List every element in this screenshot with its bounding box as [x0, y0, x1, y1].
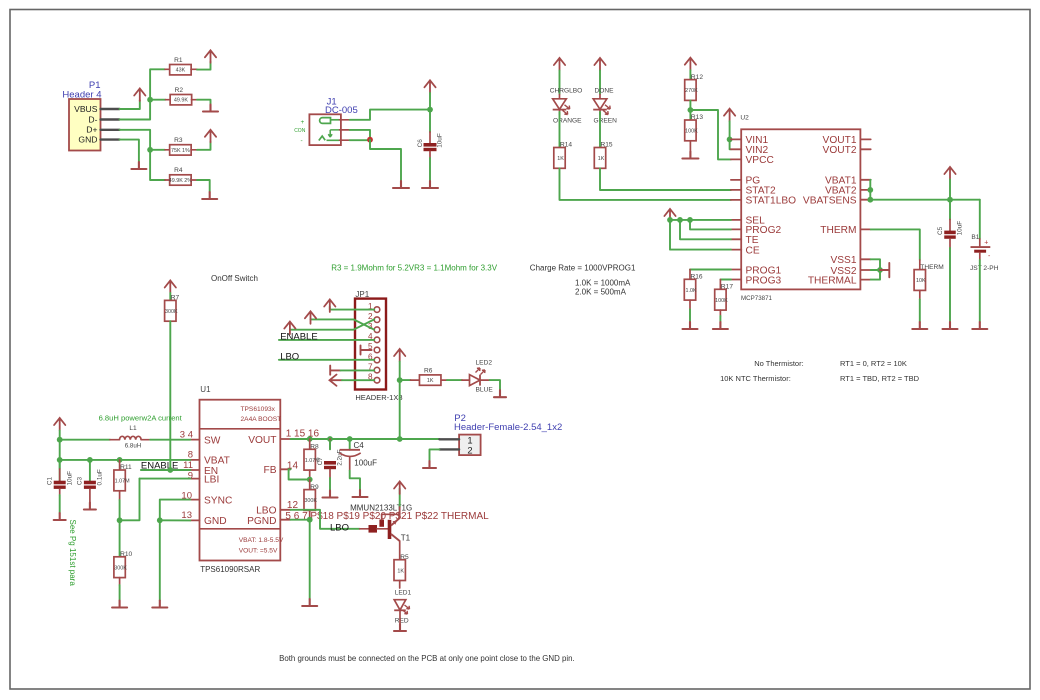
- resistor R4 lead right: [191, 179, 197, 181]
- power arrow R1: [205, 50, 216, 63]
- resistor R8 lead top: [309, 439, 311, 449]
- inductor L1: [120, 436, 142, 439]
- junction VIN rail: [427, 107, 433, 113]
- resistor R9 lead top: [309, 480, 311, 490]
- svg-text:D-: D-: [88, 114, 97, 124]
- wire PROG3: [720, 279, 731, 281]
- wire R12 to R13: [689, 100, 691, 120]
- ground J1: [393, 181, 409, 188]
- svg-text:HEADER-1X8: HEADER-1X8: [355, 393, 402, 402]
- ground R17: [713, 322, 728, 329]
- resistor R8: [304, 444, 320, 471]
- svg-text:1K: 1K: [427, 378, 434, 384]
- wire R16 to ground: [689, 309, 691, 322]
- P2 pin 2 stub: [439, 448, 459, 450]
- ground PGND: [302, 599, 317, 606]
- wire J1 middle pin to junction: [350, 130, 370, 140]
- capacitor C5 lead bottom: [949, 239, 951, 248]
- transistor T1 base resistor lead: [360, 528, 369, 530]
- U1 pin stub SYNC: [190, 499, 199, 501]
- svg-text:LBO: LBO: [280, 351, 299, 362]
- transistor T1 base resistor: [369, 525, 378, 533]
- power arrow JP1 pin2: [305, 311, 316, 324]
- svg-text:U2: U2: [740, 114, 749, 121]
- U2 pin stub VOUT2: [860, 148, 870, 150]
- wire C7 top: [329, 441, 331, 449]
- svg-text:JST 2-PH: JST 2-PH: [970, 265, 999, 272]
- wire to JP1 pin7: [341, 369, 375, 371]
- svg-text:270K: 270K: [685, 88, 698, 94]
- connector JP1 HEADER-1X8 body: [355, 299, 386, 390]
- svg-text:R1: R1: [174, 57, 183, 64]
- svg-text:C4: C4: [354, 441, 365, 450]
- svg-text:10uF: 10uF: [66, 471, 73, 486]
- wire arrow to junction: [399, 362, 401, 381]
- resistor R7: [165, 295, 180, 322]
- IC U2 MCP73871 body: [741, 129, 860, 289]
- U2 pin stub PG: [731, 179, 741, 181]
- resistor R2 lead left: [166, 99, 171, 101]
- wire arrow to LED DONE: [599, 71, 601, 95]
- svg-text:300K: 300K: [304, 498, 317, 504]
- wire CE: [670, 220, 731, 250]
- transistor T1 emitter lead: [399, 507, 401, 518]
- junction SEL b: [677, 217, 683, 223]
- wire LBO net from U1: [291, 510, 360, 529]
- junction GND/SYNC: [157, 517, 163, 523]
- resistor R8 lead bottom: [309, 470, 311, 479]
- svg-text:B1: B1: [971, 234, 979, 241]
- junction 5V LED2: [397, 377, 403, 383]
- ground LED2: [494, 390, 506, 397]
- wire LED to R14: [559, 112, 561, 148]
- wire rail to C5: [949, 200, 951, 220]
- power arrow VBAT rail: [944, 167, 955, 180]
- power arrow R7: [165, 281, 176, 294]
- svg-text:1.0K = 1000mA: 1.0K = 1000mA: [575, 279, 631, 288]
- U2 pin stub PROG1: [731, 269, 741, 271]
- ground LED1: [394, 624, 406, 631]
- wire C6 to ground: [429, 158, 431, 181]
- connector P2 body: [459, 435, 481, 456]
- svg-text:100K: 100K: [685, 129, 698, 135]
- svg-text:TPS61093x: TPS61093x: [241, 406, 276, 413]
- resistor THERM 10K: [914, 264, 944, 291]
- junction J1 minus (red): [367, 137, 373, 143]
- svg-text:No Thermistor:: No Thermistor:: [754, 359, 803, 368]
- wire VBAT2 to VBATSENS: [869, 190, 871, 200]
- junction VBAT column: [57, 457, 63, 463]
- wire arrow to rail: [949, 180, 951, 200]
- U1 pin stub SW: [190, 439, 199, 441]
- svg-text:49.9K 2%: 49.9K 2%: [169, 178, 193, 184]
- svg-text:R4: R4: [174, 167, 183, 174]
- capacitor C1 lead top: [59, 469, 61, 481]
- ground C6: [422, 181, 438, 188]
- wire R15 to STAT2: [600, 168, 731, 190]
- transistor T1 bias to emitter: [382, 513, 400, 515]
- junction LBI divider: [117, 517, 123, 523]
- JP1 pin 5 circle: [374, 347, 380, 353]
- resistor R11 lead top: [119, 460, 121, 470]
- P1 pin 4 stub GND: [101, 138, 120, 140]
- svg-text:STAT1LBO: STAT1LBO: [746, 196, 797, 207]
- svg-text:R12: R12: [691, 74, 703, 81]
- capacitor C4 electrolytic: [340, 450, 361, 457]
- wire SW row to L1: [60, 439, 110, 441]
- resistor R11 lead bottom: [119, 491, 121, 500]
- junction VBAT C3: [87, 457, 93, 463]
- junction VOUT column: [397, 436, 403, 442]
- U1 pin stub PGND: [280, 519, 290, 521]
- svg-text:0.1uF: 0.1uF: [97, 469, 104, 485]
- svg-text:R10: R10: [120, 551, 132, 558]
- arrow JP1 pin8: [330, 375, 343, 386]
- svg-text:L1: L1: [129, 425, 137, 432]
- ground R10: [112, 601, 127, 608]
- transistor T1 base lead: [377, 528, 388, 530]
- LED DONE (green): [593, 94, 617, 125]
- power arrow JP1 pin3: [284, 322, 295, 335]
- svg-text:T1: T1: [401, 533, 411, 542]
- wire PGND to ground: [309, 520, 311, 599]
- wire VBAT column: [59, 431, 61, 481]
- junction SEL c: [687, 217, 693, 223]
- U2 pin stub VSS1: [860, 258, 870, 260]
- U2 pin stub VPCC: [731, 158, 741, 160]
- power arrow R3: [205, 130, 216, 143]
- junction SW column: [57, 437, 63, 443]
- wire PROG2: [690, 220, 731, 230]
- svg-text:R11: R11: [120, 464, 132, 471]
- wire VBUS to power arrow: [120, 100, 140, 109]
- svg-text:10uF: 10uF: [957, 221, 964, 236]
- ground P1: [131, 162, 146, 169]
- wire VSS2: [871, 269, 880, 271]
- resistor R14: [554, 142, 573, 169]
- svg-text:75K 1%: 75K 1%: [171, 148, 190, 154]
- svg-text:R3: R3: [174, 137, 183, 144]
- svg-text:CON: CON: [294, 128, 306, 134]
- junction FB divider: [307, 477, 313, 483]
- wire rail to C6: [429, 110, 431, 132]
- IC U1 TPS61090 body: [200, 400, 284, 561]
- wire VOUT rail: [291, 438, 440, 440]
- svg-text:PROG3: PROG3: [746, 275, 782, 286]
- svg-text:PGND: PGND: [247, 516, 276, 527]
- wire J1 plus to rail: [350, 110, 430, 120]
- svg-text:1 15 16: 1 15 16: [286, 429, 320, 440]
- svg-text:ORANGE: ORANGE: [553, 117, 582, 124]
- wire LED to R15: [599, 112, 601, 148]
- ground C7: [323, 491, 338, 498]
- junction VOUT C7: [327, 436, 333, 442]
- LED2 lead left: [462, 379, 470, 381]
- J1 pin 2 stub: [340, 129, 350, 131]
- svg-text:Both grounds must be connected: Both grounds must be connected on the PC…: [279, 654, 575, 663]
- resistor R10 lead bottom: [119, 578, 121, 585]
- capacitor C1 lead bottom: [59, 489, 61, 495]
- svg-text:100uF: 100uF: [354, 459, 377, 468]
- inductor L1 lead right: [141, 439, 150, 441]
- U1 pin stub LBO: [280, 509, 290, 511]
- junction PGND: [307, 517, 313, 523]
- power arrow VBUS: [134, 89, 145, 102]
- wire C1 to ground: [59, 495, 61, 513]
- svg-text:MMUN2133LT1G: MMUN2133LT1G: [350, 503, 412, 512]
- svg-text:R9: R9: [310, 484, 319, 491]
- wire D+ to divider R3/R4: [120, 130, 166, 180]
- U1 pin stub GND: [190, 519, 199, 521]
- LED1 lead bottom: [399, 610, 401, 624]
- svg-text:Charge Rate = 1000VPROG1: Charge Rate = 1000VPROG1: [530, 263, 636, 272]
- wire EN row: [141, 469, 190, 471]
- resistor R15: [594, 142, 613, 169]
- resistor R6 lead left: [411, 379, 420, 381]
- U2 pin stub VBATSENS: [860, 199, 870, 201]
- svg-text:Header-Female-2.54_1x2: Header-Female-2.54_1x2: [454, 422, 562, 433]
- wire junction to R2: [150, 99, 165, 101]
- wire R4 to ground: [197, 180, 210, 192]
- wire divider to VPCC: [690, 110, 731, 159]
- svg-text:C3: C3: [77, 476, 84, 485]
- svg-text:2.2uF: 2.2uF: [337, 449, 344, 465]
- svg-text:LED2: LED2: [476, 359, 493, 366]
- wire VBAT to C3: [89, 460, 91, 481]
- svg-text:R17: R17: [721, 284, 733, 291]
- wire JP1 pin1 to power arrow: [330, 307, 374, 310]
- wire PROG1: [690, 269, 731, 271]
- svg-text:ENABLE: ENABLE: [280, 331, 318, 342]
- power arrow VBAT left: [54, 418, 65, 431]
- capacitor C6 lead top: [429, 132, 431, 143]
- wire arrow to R12: [689, 70, 691, 79]
- U2 pin stub THERMAL: [860, 279, 870, 281]
- wire L1 to SW pin: [150, 439, 190, 441]
- U2 pin stub VOUT1: [860, 138, 870, 140]
- junction SEL a: [667, 217, 673, 223]
- svg-text:VBUS: VBUS: [74, 104, 98, 114]
- junction VBAT R11: [117, 457, 123, 463]
- wire VSS1: [871, 259, 880, 270]
- svg-text:VPCC: VPCC: [746, 155, 774, 166]
- P2 pin 1 stub: [439, 438, 459, 440]
- junction VSS tie: [877, 267, 883, 273]
- wire R2 to ground: [197, 100, 211, 105]
- wire R17 to ground: [719, 316, 721, 322]
- U1 pin stub LBI: [190, 478, 199, 480]
- battery B1 lead top: [979, 239, 981, 247]
- wire LBI divider jog: [120, 479, 140, 521]
- resistor R16 lead top: [689, 270, 691, 280]
- svg-text:1K: 1K: [397, 568, 404, 574]
- svg-text:MCP73871: MCP73871: [741, 295, 773, 302]
- wire FB to divider: [289, 469, 310, 479]
- svg-text:VOUT: VOUT: [248, 435, 276, 446]
- U2 pin stub CE: [731, 249, 741, 251]
- svg-text:FB: FB: [263, 465, 276, 476]
- wire JP1 pin2 crossing to pin3: [311, 319, 375, 329]
- resistor R13: [685, 114, 704, 141]
- svg-text:VOUT2: VOUT2: [823, 145, 857, 156]
- resistor R3 lead right: [191, 149, 197, 151]
- U1 pin stub VBAT: [190, 459, 199, 461]
- P1 pin 3 stub D+: [101, 129, 120, 131]
- ground THERM: [912, 322, 927, 329]
- wire arrow to rail junction: [429, 93, 431, 110]
- resistor R1: [170, 57, 192, 75]
- power arrow CHRGLBO: [554, 58, 565, 71]
- wire VBAT1 to junction: [869, 180, 871, 190]
- wire J1 minus to ground: [370, 140, 401, 181]
- junction VBAT rail C5: [947, 197, 953, 203]
- JP1 pin 7 circle: [374, 367, 380, 373]
- P1 pin 1 stub VBUS: [101, 108, 120, 110]
- battery B1 lead bottom: [979, 253, 981, 260]
- resistor R11: [114, 464, 132, 491]
- resistor THERM lead top: [919, 260, 921, 270]
- U2 pin stub TE: [731, 238, 741, 240]
- JP1 pin 1 circle: [374, 307, 380, 313]
- svg-text:+: +: [984, 239, 988, 246]
- wire D- to divider R1/R2: [120, 69, 166, 119]
- svg-text:VSS1: VSS1: [830, 255, 856, 266]
- wire R1 to power arrow: [197, 62, 211, 70]
- svg-text:CHRGLBO: CHRGLBO: [550, 87, 583, 94]
- svg-text:VBAT: 1.8-5.5V: VBAT: 1.8-5.5V: [239, 537, 284, 544]
- ground C4: [353, 490, 368, 497]
- svg-text:2A4A BOOST: 2A4A BOOST: [241, 416, 282, 423]
- resistor R1 lead left: [165, 68, 170, 70]
- ground P2: [423, 461, 436, 468]
- svg-text:GND: GND: [204, 516, 227, 527]
- svg-text:1.07M: 1.07M: [115, 479, 130, 485]
- svg-text:R8: R8: [310, 444, 319, 451]
- junction D- divider: [147, 97, 153, 103]
- svg-text:R15: R15: [601, 142, 613, 149]
- wire rail to battery B1: [979, 200, 981, 239]
- wire TE: [680, 220, 731, 239]
- svg-text:LBO: LBO: [256, 506, 276, 517]
- wire PGND row: [291, 519, 310, 521]
- resistor R4 lead left: [165, 179, 170, 181]
- svg-text:C7: C7: [317, 457, 324, 466]
- capacitor C3: [77, 469, 104, 489]
- wire R3 to power arrow: [197, 142, 211, 150]
- ground R13: [682, 152, 698, 159]
- JP1 pin 6 circle: [374, 357, 380, 363]
- svg-text:R16: R16: [691, 274, 703, 281]
- resistor R16: [684, 274, 703, 301]
- svg-text:R6: R6: [424, 367, 433, 374]
- capacitor C1: [47, 471, 74, 489]
- wire junction to R6: [400, 379, 411, 381]
- wire junction down to VOUT rail: [399, 380, 401, 439]
- svg-text:LED1: LED1: [395, 590, 412, 597]
- U2 pin stub VSS2: [860, 269, 870, 271]
- capacitor C4 lead bottom: [349, 458, 351, 471]
- resistor THERM lead bottom: [919, 290, 921, 299]
- wire SEL: [670, 219, 731, 221]
- ground R16: [683, 322, 698, 329]
- U2 pin stub THERM: [860, 228, 870, 230]
- transistor T1 bias connection: [381, 514, 383, 519]
- wire C4 to ground: [350, 471, 360, 490]
- wire JP1 pin3 crossing to pin2: [290, 319, 374, 329]
- transistor T1 collector lead: [399, 541, 401, 560]
- svg-text:CE: CE: [746, 245, 760, 256]
- svg-text:-: -: [988, 253, 991, 260]
- svg-text:LBO: LBO: [330, 523, 349, 534]
- U2 pin stub VBAT1: [860, 179, 870, 181]
- capacitor C7 lead top: [329, 439, 331, 449]
- svg-text:C6: C6: [417, 139, 424, 148]
- resistor R4: [169, 167, 193, 185]
- wire R14 to STAT1LBO: [560, 168, 731, 200]
- svg-text:2.0K = 500mA: 2.0K = 500mA: [575, 288, 627, 297]
- wire ENABLE to JP1 pin4: [279, 339, 374, 341]
- wire VBAT row: [60, 459, 191, 461]
- power arrow SEL group: [664, 209, 675, 222]
- wire arrow to LED CHRGLBO: [559, 71, 561, 95]
- svg-text:RED: RED: [395, 618, 409, 625]
- P1 pin 2 stub D-: [101, 118, 120, 120]
- wire arrow to R7: [169, 293, 171, 300]
- wire THERM to ground: [919, 299, 921, 322]
- svg-text:R5: R5: [400, 554, 409, 561]
- ground C5: [943, 322, 958, 329]
- svg-text:1K: 1K: [598, 156, 605, 162]
- svg-text:43K: 43K: [176, 68, 186, 74]
- inductor L1 lead left: [110, 439, 120, 441]
- U2 pin stub SEL: [731, 219, 741, 221]
- U2 pin stub PROG2: [731, 228, 741, 230]
- svg-text:R2: R2: [175, 87, 184, 94]
- power arrow VIN1: [724, 109, 735, 122]
- resistor R16 lead bottom: [689, 300, 691, 309]
- capacitor C1 wire top: [59, 460, 61, 469]
- wire to JP1 pin8: [342, 379, 374, 381]
- resistor R13 lead to ground: [689, 141, 691, 152]
- LED2 (blue): [470, 368, 486, 386]
- svg-text:SYNC: SYNC: [204, 495, 232, 506]
- svg-text:49.9K: 49.9K: [174, 98, 188, 104]
- svg-text:THERMAL: THERMAL: [808, 275, 857, 286]
- svg-text:R7: R7: [171, 295, 180, 302]
- wire R10 to ground: [119, 585, 121, 601]
- svg-text:GREEN: GREEN: [594, 117, 618, 124]
- svg-text:2: 2: [467, 445, 472, 456]
- svg-text:1K: 1K: [557, 156, 564, 162]
- wire SYNC row: [160, 500, 191, 521]
- wire GND column to ground: [159, 520, 161, 600]
- svg-text:1.0K: 1.0K: [685, 288, 696, 294]
- wire R7 to EN: [169, 321, 171, 470]
- resistor R3 lead left: [165, 149, 170, 151]
- svg-text:DONE: DONE: [594, 87, 614, 94]
- ground R2: [203, 105, 218, 112]
- resistor R6 lead right: [441, 379, 447, 381]
- svg-text:TPS61090RSAR: TPS61090RSAR: [200, 565, 260, 574]
- wire P1 GND down: [120, 140, 139, 162]
- J1 pin 3 stub: [340, 139, 350, 141]
- wire LBI row: [140, 478, 191, 480]
- svg-text:6.8uH powerw2A current: 6.8uH powerw2A current: [99, 413, 183, 422]
- svg-text:-: -: [301, 138, 303, 145]
- wire LBO to JP1 pin6: [279, 359, 374, 361]
- svg-text:5 6 7 P$18 P$19 P$20 P$21 P$22: 5 6 7 P$18 P$19 P$20 P$21 P$22 THERMAL: [285, 511, 489, 522]
- U1 pin stub FB: [280, 468, 290, 470]
